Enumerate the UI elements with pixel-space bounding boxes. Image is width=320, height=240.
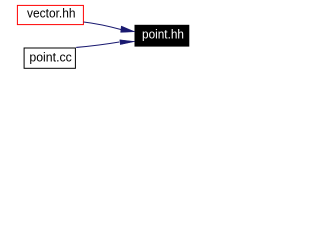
svg-text:point.hh: point.hh xyxy=(142,26,184,41)
svg-text:point.cc: point.cc xyxy=(29,50,72,65)
svg-text:vector.hh: vector.hh xyxy=(27,6,76,21)
